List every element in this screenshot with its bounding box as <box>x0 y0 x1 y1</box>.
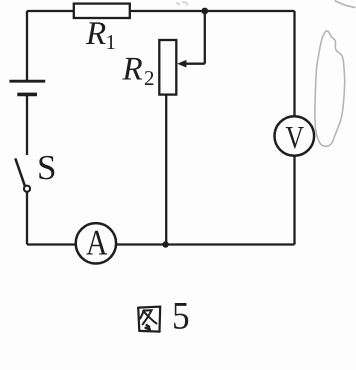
resistor R1 <box>74 4 130 18</box>
label R1 <box>85 16 116 54</box>
label R2 <box>122 52 155 91</box>
node junction top <box>201 8 208 15</box>
svg-text:1: 1 <box>106 30 117 54</box>
svg-text:A: A <box>86 223 108 263</box>
switch S <box>15 158 30 191</box>
wire left upper (to battery) <box>26 11 28 80</box>
label S <box>37 148 56 187</box>
ammeter A <box>76 223 116 264</box>
wire right side <box>293 11 295 245</box>
svg-text:S: S <box>37 148 56 187</box>
battery cell <box>9 81 45 94</box>
caption 图 5 <box>138 307 160 332</box>
svg-text:5: 5 <box>172 295 190 338</box>
svg-text:2: 2 <box>144 66 155 90</box>
svg-text:V: V <box>286 119 305 155</box>
wire battery to switch <box>26 95 28 155</box>
wire wiper feed <box>186 11 205 64</box>
svg-text:R: R <box>122 52 143 88</box>
wire top <box>27 10 295 12</box>
rheostat R2 <box>159 40 186 95</box>
voltmeter V <box>275 116 315 156</box>
wire bottom <box>27 243 295 245</box>
node junction bottom <box>162 241 168 247</box>
wire R2 to bottom <box>165 95 167 245</box>
svg-text:R: R <box>85 16 106 52</box>
wire switch to bottom <box>26 192 28 245</box>
